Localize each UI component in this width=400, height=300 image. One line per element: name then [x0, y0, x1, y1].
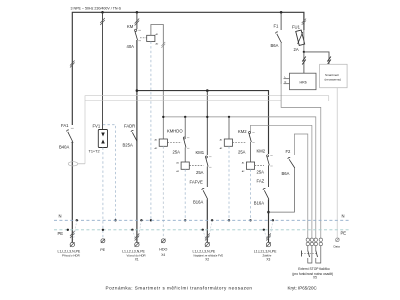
connector pins smartmeter top [327, 57, 331, 65]
label stop button [292, 267, 333, 280]
enclosure top edge [85, 96, 329, 164]
wire FU1 to HRb top [303, 52, 305, 73]
svg-text:B16A: B16A [193, 200, 203, 205]
wire main feeder below FA1 [71, 142, 73, 243]
wire KMHDO contact to KM1 coil [184, 148, 186, 163]
wire FAFVE to X2 [206, 199, 208, 242]
wire FV1 N jog dashed [103, 125, 116, 221]
wire F1 to HRb pins [280, 43, 282, 84]
wire cable marker control [161, 42, 165, 48]
wire KM2 pilot coil feed [228, 117, 230, 139]
svg-text:25A: 25A [173, 149, 181, 154]
breaker FA1 [59, 123, 74, 150]
svg-text:B6A: B6A [282, 171, 290, 176]
node X2 PE jog [202, 229, 204, 231]
wire top bus L1L2L3 [72, 12, 304, 125]
terminal X3 [254, 242, 277, 261]
node control bus KM1 contact [206, 116, 208, 118]
wire F2 to junction [269, 168, 295, 212]
node FV1 N junction [114, 219, 116, 221]
svg-text:25A: 25A [238, 150, 246, 155]
stop button contacts [302, 246, 321, 263]
wire cable marker main [70, 61, 75, 68]
breaker FAFVE [190, 180, 208, 205]
wire cable marker X2 [205, 234, 210, 241]
svg-text:X1: X1 [135, 258, 139, 262]
svg-text:FA1: FA1 [61, 123, 69, 128]
node KM2 pilot N junction [228, 219, 230, 221]
wire KM1 coil A2 dashed N [184, 169, 186, 220]
terminal strip X5 circles [306, 238, 322, 246]
svg-text:A1: A1 [220, 139, 223, 142]
svg-text:F2: F2 [286, 149, 292, 154]
svg-text:N: N [59, 214, 62, 219]
node top bus junction KM [136, 11, 139, 14]
terminal PE [100, 239, 105, 252]
svg-text:X5: X5 [313, 276, 317, 280]
node X3 N jog [272, 219, 274, 221]
svg-text:A2: A2 [176, 170, 179, 173]
wire cable marker FV1 [100, 18, 105, 25]
svg-text:A2: A2 [220, 147, 223, 150]
wire stop loop 2 [311, 125, 313, 239]
relay box HRb [284, 73, 317, 90]
svg-text:X2: X2 [205, 258, 209, 262]
svg-text:F1: F1 [274, 24, 280, 29]
svg-text:PE: PE [341, 231, 347, 236]
node KM line junction [136, 89, 139, 92]
bus PE dashed [54, 230, 349, 236]
coil KM1 [176, 162, 203, 173]
node X1 N jog [140, 219, 142, 221]
svg-text:3 NPE ~ 50Hz 230/400V / TN-S: 3 NPE ~ 50Hz 230/400V / TN-S [71, 7, 122, 11]
breaker F1 [271, 12, 282, 48]
wire KM to FADR and X1 [136, 40, 138, 242]
svg-text:FV1: FV1 [93, 124, 101, 129]
wire cable marker KM [135, 19, 140, 26]
wire KM coil A2 dashed N [150, 42, 152, 221]
coil KM2 [242, 162, 264, 173]
breaker FAZ [254, 179, 269, 206]
node KM1 feed junction [206, 89, 209, 92]
wire KM2 aux to KM2 coil [250, 142, 252, 162]
node PE terminal junction [102, 229, 104, 231]
node X2 N jog [211, 219, 213, 221]
svg-text:Externí STOP tlačítko: Externí STOP tlačítko [298, 267, 330, 271]
wire FAZ to X3 [268, 199, 270, 242]
svg-text:A2: A2 [242, 170, 245, 173]
wire KM2 coil A2 dashed N [250, 169, 252, 220]
svg-text:PE: PE [100, 248, 105, 252]
wire KM2 contact to FAZ [268, 165, 270, 187]
wire X jog stubs [74, 220, 273, 239]
node X3 PE jog [263, 229, 265, 231]
svg-text:KM1: KM1 [196, 150, 205, 155]
wire control link lower gray [85, 100, 281, 102]
breaker F2 [282, 149, 295, 176]
wire FU1 to smartmeter [304, 52, 329, 64]
surge protector FV1 [89, 124, 108, 154]
contactor KM contact [127, 24, 142, 49]
svg-text:25A: 25A [196, 170, 204, 175]
wire ellipse leader [78, 163, 85, 165]
svg-text:FU1: FU1 [292, 25, 301, 30]
svg-text:B16A: B16A [254, 201, 264, 206]
measurement box smartmeter [320, 64, 348, 87]
terminal X1 [122, 242, 146, 261]
svg-text:KM: KM [127, 24, 134, 29]
svg-text:HDO: HDO [159, 248, 167, 252]
node control bus KM1 [184, 116, 186, 118]
coil KMHDO [155, 139, 182, 150]
svg-text:Kryt: IP65/20C: Kryt: IP65/20C [288, 285, 318, 290]
terminal X4 HDO [159, 239, 167, 257]
contact KM2 main [257, 149, 273, 175]
svg-text:N: N [285, 81, 287, 84]
svg-text:A2: A2 [156, 43, 159, 46]
svg-text:HRb: HRb [300, 81, 307, 85]
wire KM branch [136, 12, 138, 29]
wire KMHDO coil to HDO terminal dashed [162, 146, 164, 239]
svg-text:B25A: B25A [123, 143, 133, 148]
contact KM2 aux [238, 125, 312, 154]
coil KM2 pilot [220, 139, 247, 150]
svg-text:B6A: B6A [271, 43, 279, 48]
wire KM2 pilot coil A2 dashed N [228, 146, 230, 220]
terminal Data [334, 238, 341, 249]
wire FV1 earth dashed to PE [102, 148, 104, 239]
contact KM1 main [196, 150, 212, 175]
svg-text:KM2: KM2 [257, 149, 266, 154]
svg-text:N: N [342, 214, 345, 219]
svg-text:A1: A1 [155, 139, 158, 142]
wire cable marker X3 [266, 234, 271, 241]
wire cable entry ellipse [68, 162, 78, 166]
wire F2 branch [294, 134, 307, 239]
svg-text:Data: Data [334, 245, 341, 249]
svg-text:Smartmetr: Smartmetr [325, 73, 339, 77]
node FAZ F2 junction [267, 211, 270, 214]
node KM coil N junction [150, 219, 152, 221]
wire KM coil A1 loop to control [151, 25, 163, 140]
svg-text:T1+T2: T1+T2 [89, 150, 100, 154]
node main N jog [76, 219, 78, 221]
wire KM1 feed drop [206, 91, 208, 155]
svg-text:Přívod z HDR: Přívod z HDR [62, 254, 80, 258]
wire control bus 117 [163, 117, 315, 239]
terminal X main incomer [58, 242, 81, 257]
node KM2 coil N junction [249, 219, 251, 221]
svg-text:FADR: FADR [124, 124, 135, 129]
wire KM1 contact to FAFVE [206, 167, 208, 188]
svg-text:L1,L2,L3,N,PE: L1,L2,L3,N,PE [193, 249, 216, 253]
breaker FADR [123, 124, 138, 148]
node FU1 output junction [303, 51, 305, 53]
wire distribution line after KM [137, 91, 269, 154]
wire cable marker PE drop [70, 231, 75, 238]
wire HRb to stop terminal 4 [281, 84, 321, 239]
svg-text:KM2: KM2 [238, 129, 247, 134]
svg-text:X3: X3 [266, 258, 270, 262]
node KM1 coil N junction [184, 219, 186, 221]
svg-text:2A: 2A [294, 47, 299, 52]
node control bus KM2 [228, 116, 230, 118]
fuse FU1 [292, 19, 306, 52]
svg-text:FAFVE: FAFVE [190, 180, 203, 185]
coil KM [140, 33, 159, 46]
node control bus KMHDO [162, 116, 164, 118]
svg-text:(neosazeno): (neosazeno) [325, 78, 342, 82]
node top bus junction FV1 [101, 11, 104, 14]
svg-text:Poznámka: Smartmetr s měřicími: Poznámka: Smartmetr s měřicími transform… [106, 285, 253, 290]
svg-text:A1: A1 [242, 162, 245, 165]
svg-text:A1: A1 [156, 33, 159, 36]
svg-text:PE: PE [58, 231, 64, 236]
svg-text:X4: X4 [161, 253, 165, 257]
svg-text:FAZ: FAZ [257, 179, 265, 184]
svg-text:A1: A1 [176, 162, 179, 165]
node main PE jog [67, 229, 69, 231]
svg-text:40A: 40A [127, 44, 135, 49]
connector pins HRb top [302, 57, 306, 65]
node top bus junction F1 [280, 11, 283, 14]
node X1 PE jog [131, 229, 133, 231]
bus N dashed [54, 214, 349, 221]
wire FV1 branch [102, 12, 104, 129]
svg-text:25A: 25A [257, 170, 265, 175]
svg-text:B40A: B40A [59, 145, 69, 150]
svg-text:KMHDO: KMHDO [167, 128, 183, 133]
svg-text:A2: A2 [155, 147, 158, 150]
wire cable marker X1 [135, 234, 140, 241]
wire smartmeter data [336, 88, 338, 238]
contact KMHDO aux [167, 117, 189, 154]
terminal X2 [193, 242, 224, 261]
